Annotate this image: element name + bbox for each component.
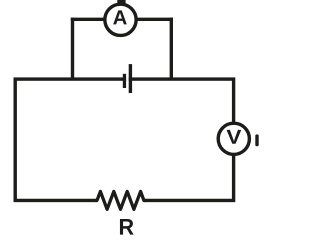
node stub right of voltmeter (cropped wire at right edge) <box>255 134 258 146</box>
wire ammeter branch top right horizontal <box>131 18 173 21</box>
battery B1 short plate (negative) <box>123 74 126 88</box>
resistor R gap in bottom wire <box>97 198 143 203</box>
wire ammeter branch left vertical <box>71 18 74 80</box>
ammeter U1 label A <box>113 10 127 24</box>
ammeter U1 circle <box>105 4 136 35</box>
battery B1 long plate (positive) <box>129 64 132 93</box>
voltmeter U2 label V <box>227 130 242 144</box>
wire ammeter branch top left horizontal <box>71 18 110 21</box>
voltmeter U2 circle <box>218 123 249 154</box>
resistor R zigzag <box>96 191 146 209</box>
node stub above ammeter (cropped wire at top edge) <box>117 0 125 4</box>
wire main loop rectangle <box>15 79 233 200</box>
resistor R value label <box>120 219 134 235</box>
battery B1 gap between plates <box>126 77 129 82</box>
wire ammeter branch right vertical <box>170 18 173 80</box>
